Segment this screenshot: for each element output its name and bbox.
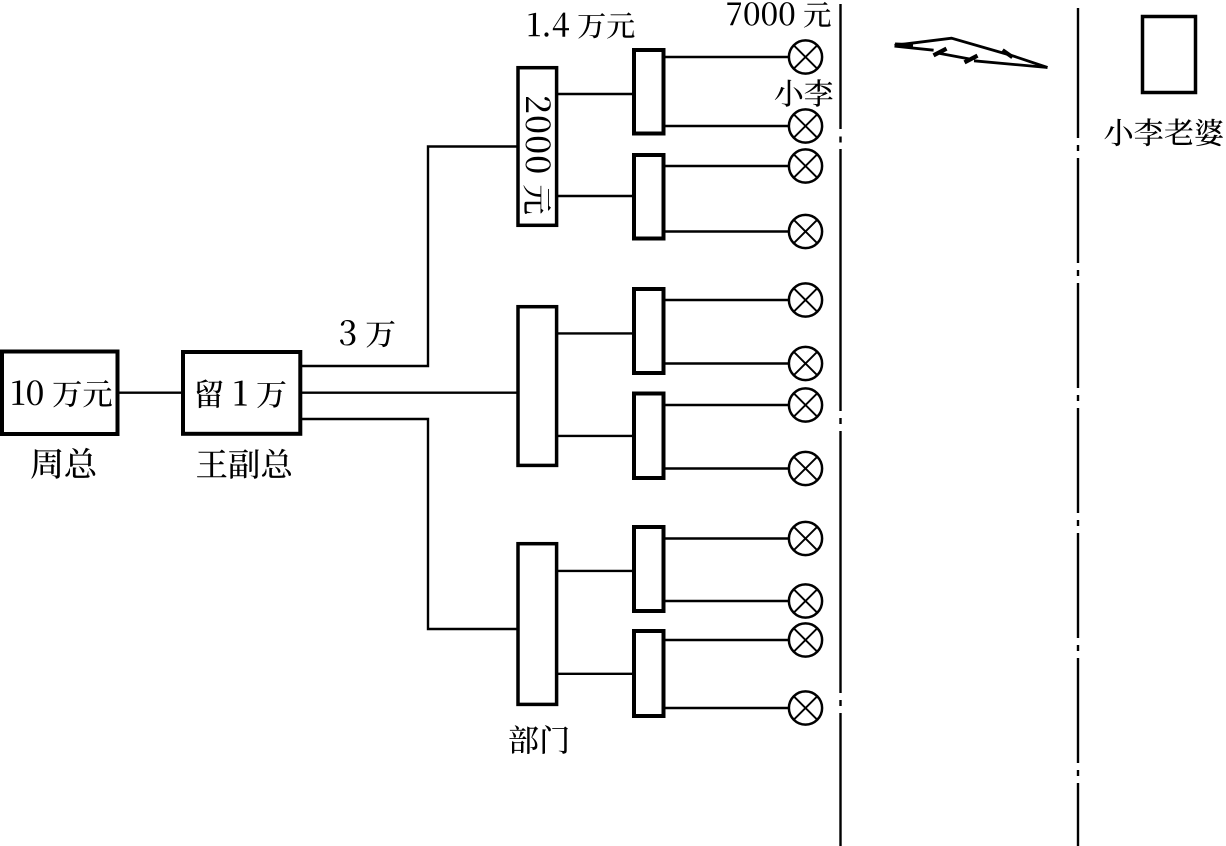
box 小李老婆 <box>1143 17 1196 93</box>
lamp L1 (circle-X load symbol) <box>789 40 822 73</box>
wire to lamp L3 <box>664 165 790 167</box>
busbar T1 <box>634 50 664 134</box>
wire to lamp L4 <box>664 230 790 232</box>
wire bottom box to busbar B2 <box>556 673 634 675</box>
wire to lamp L9 <box>664 537 790 539</box>
label 7000 元 <box>727 2 830 28</box>
distribution box bottom 部门 <box>518 544 557 705</box>
wire to lamp L2 <box>664 125 790 127</box>
lamp L6 (circle-X load symbol) <box>789 347 822 380</box>
lightning bolt arrow <box>895 38 1048 67</box>
wire 周总 to 王副总 <box>117 392 184 394</box>
label 10 万元 <box>12 380 112 407</box>
label 王副总 <box>197 449 291 479</box>
lamp L7 (circle-X load symbol) <box>789 388 822 421</box>
label 小李 <box>775 79 833 107</box>
distribution box 2000元 <box>518 68 557 226</box>
wire to lamp L10 <box>664 600 790 602</box>
wire to lamp L12 <box>664 707 790 709</box>
wire middle box to busbar M1 <box>556 332 634 334</box>
wire to lamp L6 <box>664 362 790 364</box>
boundary dash-dot line 1 (小李 property line) <box>839 4 841 846</box>
label 3 万 <box>340 320 395 348</box>
wire 2000元 box to busbar T1 <box>556 93 634 95</box>
wire middle box to busbar M2 <box>556 435 634 437</box>
wire to lamp L7 <box>664 404 790 406</box>
lamp L2 (circle-X load symbol) <box>789 109 822 142</box>
wire 2000元 box to busbar T2 <box>556 195 634 197</box>
wire bottom box to busbar B1 <box>556 570 634 572</box>
source box 周总 (10万元) <box>2 352 118 435</box>
lamp L3 (circle-X load symbol) <box>789 149 822 182</box>
lamp L12 (circle-X load symbol) <box>789 691 822 724</box>
busbar M2 <box>634 394 664 479</box>
label 小李老婆 <box>1105 118 1224 146</box>
label 留 1 万 <box>197 379 286 408</box>
wire to lamp L11 <box>664 639 790 641</box>
wire feeder B to middle 部门 box <box>299 392 519 394</box>
wire to lamp L1 <box>664 56 790 58</box>
label 部门 <box>509 725 568 754</box>
label 2000 元 (rotated) <box>523 97 551 214</box>
lamp L10 (circle-X load symbol) <box>789 584 822 617</box>
label 周总 <box>31 448 95 479</box>
busbar B1 <box>634 527 664 611</box>
lamp L11 (circle-X load symbol) <box>789 623 822 656</box>
wire to lamp L8 <box>664 467 790 469</box>
box 王副总 (留1万) <box>183 352 300 434</box>
busbar B2 <box>634 631 664 716</box>
wire to lamp L5 <box>664 299 790 301</box>
wire feeder C to bottom 部门 box <box>299 419 519 629</box>
wire feeder A to 2000元 box <box>299 147 519 367</box>
boundary dash-dot line 2 (小李老婆 property line) <box>1077 8 1079 846</box>
lamp L9 (circle-X load symbol) <box>789 522 822 555</box>
label 1.4 万元 <box>529 12 635 38</box>
lamp L4 (circle-X load symbol) <box>789 215 822 248</box>
busbar M1 <box>634 289 664 373</box>
distribution box middle 部门 <box>518 307 557 466</box>
busbar T2 <box>634 155 664 239</box>
lamp L5 (circle-X load symbol) <box>789 283 822 316</box>
lamp L8 (circle-X load symbol) <box>789 452 822 485</box>
